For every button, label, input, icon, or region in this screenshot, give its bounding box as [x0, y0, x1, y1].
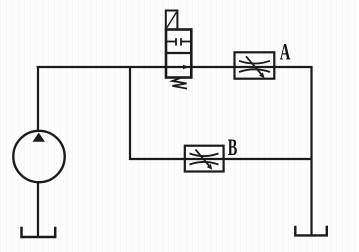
svg-text:B: B: [228, 136, 238, 161]
svg-text:A: A: [280, 41, 291, 66]
